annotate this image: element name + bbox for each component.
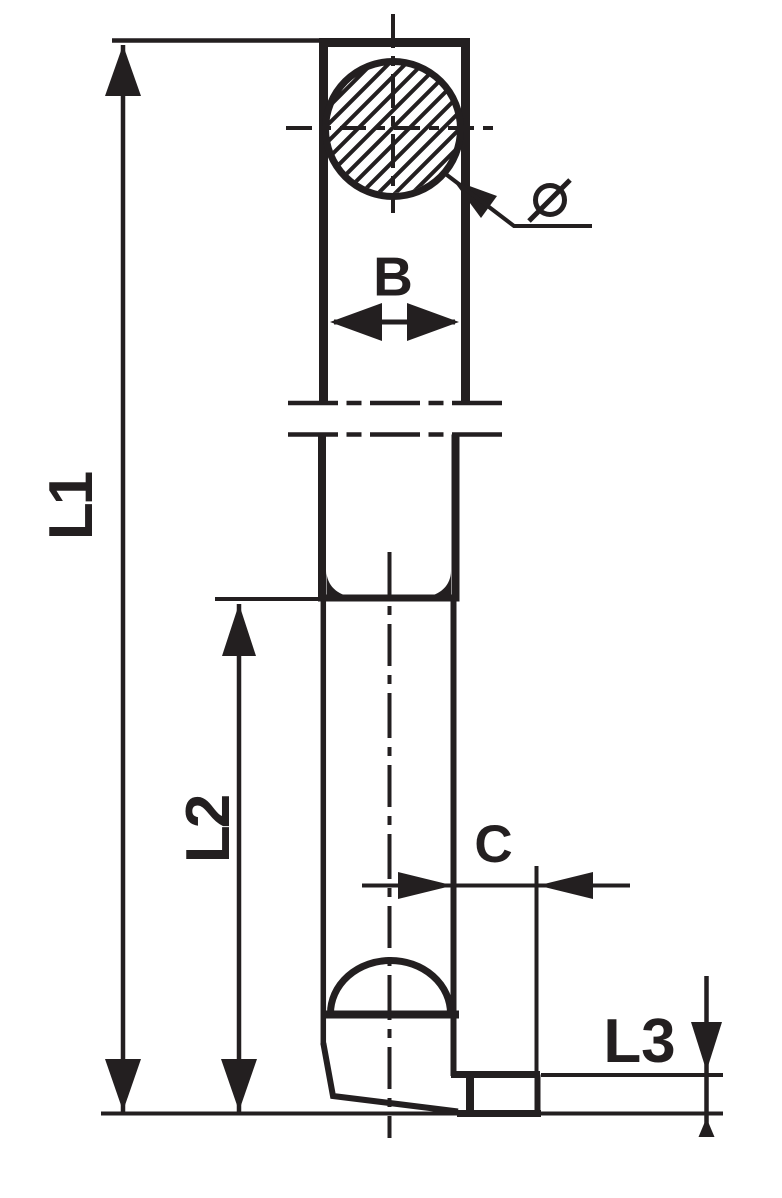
- upper shaft left wall: [318, 435, 326, 599]
- dimension C left arrow: [398, 872, 453, 899]
- L1 dimension line: [121, 45, 126, 1112]
- hatched circle (bar cross-section): [226, 0, 616, 210]
- foot rectangle bottom edge: [457, 1110, 541, 1117]
- left interior fillet: [327, 571, 352, 596]
- L3 up arrow: [699, 1118, 715, 1137]
- right interior fillet: [426, 571, 451, 596]
- L3 dimension line: [704, 976, 709, 1137]
- circle horizontal centerline: [286, 126, 501, 130]
- tip left slant: [323, 1043, 458, 1112]
- L3 down arrow: [691, 1022, 722, 1071]
- tip step line: [451, 1071, 540, 1078]
- L3 step extension line: [541, 1073, 723, 1077]
- square bar section outline (top rectangle): [324, 43, 466, 404]
- main vertical centerline: [388, 552, 392, 1138]
- circle vertical centerline: [391, 14, 395, 213]
- break line lower: [288, 432, 503, 437]
- svg-text:L2: L2: [174, 796, 243, 863]
- foot rectangle left edge: [466, 1078, 474, 1111]
- bottom baseline: [101, 1112, 723, 1116]
- foot rectangle right edge: [535, 1075, 541, 1115]
- L1 bottom arrow: [105, 1059, 141, 1111]
- L1 top arrow: [105, 45, 141, 96]
- svg-text:L1: L1: [37, 472, 106, 540]
- L2 dimension line: [237, 604, 242, 1112]
- dimension B double arrow: [330, 303, 459, 341]
- L2 extension line: [215, 597, 319, 601]
- svg-text:B: B: [373, 246, 413, 308]
- svg-text:C: C: [474, 815, 512, 874]
- L2 bottom arrow: [221, 1059, 257, 1111]
- L2 top arrow: [222, 604, 256, 656]
- C extension line: [535, 866, 539, 1114]
- dimension C line: [362, 884, 630, 888]
- diameter leader arrow: [453, 180, 497, 218]
- shoulder step line: [318, 595, 460, 602]
- diameter symbol: [529, 180, 570, 221]
- diameter leader line: [443, 172, 592, 226]
- upper shaft right wall: [452, 435, 460, 599]
- lower shaft right wall: [451, 601, 457, 1076]
- dome base line: [325, 1011, 459, 1019]
- L1 top extension line: [112, 38, 322, 43]
- lower shaft left wall: [321, 601, 327, 1045]
- ball-end dome arc: [331, 961, 451, 1014]
- dimension C right arrow: [538, 872, 593, 899]
- svg-text:L3: L3: [603, 1007, 675, 1076]
- break line upper: [288, 401, 503, 406]
